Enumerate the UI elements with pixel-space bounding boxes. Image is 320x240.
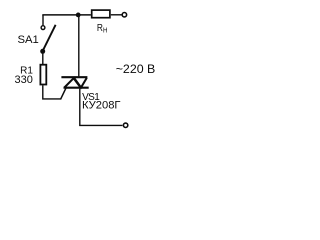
terminal bottom (123, 123, 127, 127)
triac VS1 (61, 77, 88, 88)
switch SA1 (40, 25, 55, 54)
junction node (76, 13, 81, 18)
wire switch top stub (42, 15, 44, 25)
svg-text:SA1: SA1 (17, 34, 38, 46)
wire gate lead (61, 88, 67, 100)
resistor RН load (92, 10, 110, 18)
svg-text:~220 В: ~220 В (116, 62, 156, 76)
svg-text:КУ208Г: КУ208Г (82, 100, 120, 112)
wire switch to R1 (42, 54, 44, 65)
terminal top (122, 13, 126, 17)
wire R1 to gate (43, 85, 61, 99)
svg-text:330: 330 (15, 74, 33, 86)
wire triac anode top (78, 15, 80, 76)
wire triac cathode to bottom terminal (80, 89, 123, 126)
wire top horizontal (42, 14, 91, 16)
wire RН to top terminal (111, 14, 122, 16)
resistor R1 (40, 65, 46, 85)
